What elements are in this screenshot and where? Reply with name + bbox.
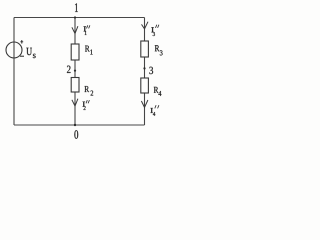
wire middle branch mid (node 2 segment)	[74, 60, 76, 78]
node 2 label	[67, 66, 71, 73]
wire bottom rail (node 0 rail)	[14, 124, 145, 126]
resistor R4	[141, 78, 149, 93]
wire middle branch upper	[74, 18, 76, 45]
wire top rail (node 1 rail)	[14, 17, 145, 19]
resistor R2	[71, 78, 79, 93]
resistor R1	[71, 44, 79, 60]
current arrow I3''	[142, 22, 149, 29]
plus polarity mark	[20, 40, 23, 44]
label I1''	[84, 26, 87, 31]
node 0 label	[74, 130, 78, 138]
minus polarity mark	[20, 55, 24, 57]
wire left source branch	[13, 18, 15, 126]
label I4''	[150, 108, 153, 113]
label R1	[85, 46, 90, 52]
label R2	[85, 86, 90, 92]
label I2''	[83, 102, 86, 107]
node 3 label	[149, 67, 153, 74]
current arrow I4''	[141, 100, 148, 107]
wire right branch lower	[144, 93, 146, 125]
node 1 label	[75, 3, 78, 12]
label Us	[26, 48, 32, 55]
current arrow I2''	[72, 99, 78, 106]
resistor R3	[141, 41, 149, 57]
current arrow I1''	[72, 26, 78, 33]
wire right branch upper	[144, 18, 146, 42]
wire middle branch lower	[74, 92, 76, 125]
wire right branch mid (node 3 segment)	[144, 57, 146, 78]
node 0 junction dot	[74, 124, 76, 126]
node 1 junction dot	[74, 16, 76, 18]
node 2 junction dot	[74, 70, 76, 72]
label R4	[154, 87, 159, 93]
label I3''	[151, 27, 154, 32]
node 3 junction dot	[143, 67, 145, 69]
label R3	[155, 45, 160, 51]
voltage source Us circle	[6, 42, 22, 58]
